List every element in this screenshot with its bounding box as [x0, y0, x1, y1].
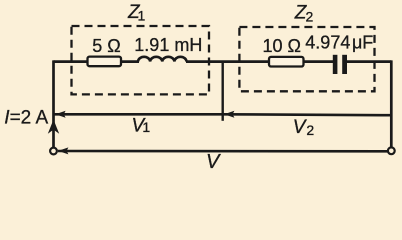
- svg-text:4.974μF: 4.974μF: [305, 33, 373, 53]
- svg-text:1: 1: [142, 119, 150, 135]
- svg-text:V: V: [206, 151, 221, 172]
- svg-text:10 Ω: 10 Ω: [263, 36, 301, 56]
- svg-text:1: 1: [138, 8, 146, 24]
- svg-text:2: 2: [306, 8, 314, 24]
- svg-text:2: 2: [306, 122, 314, 138]
- svg-text:5 Ω: 5 Ω: [92, 36, 120, 56]
- svg-text:I=2 A: I=2 A: [4, 107, 48, 128]
- svg-text:1.91 mH: 1.91 mH: [134, 35, 202, 55]
